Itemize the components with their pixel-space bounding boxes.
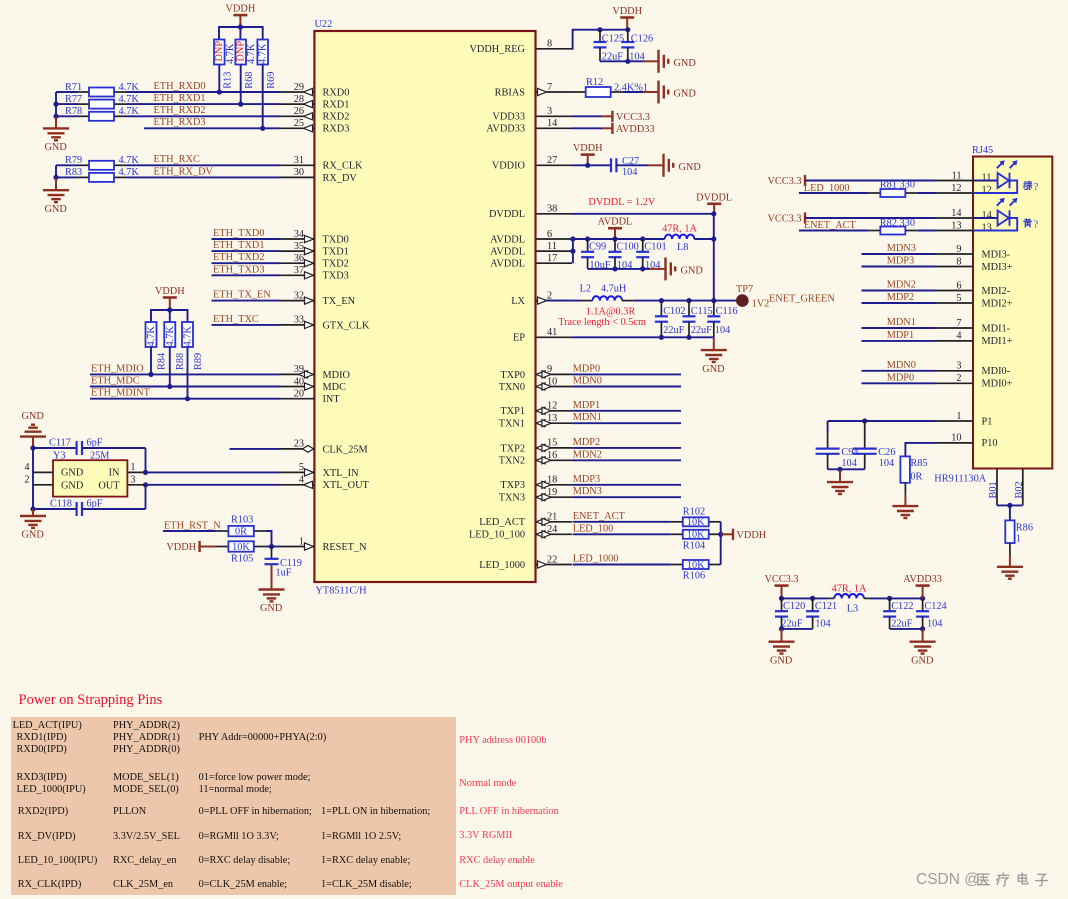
power port VDDH (VDDH_REG)	[620, 16, 634, 19]
table row RXD2(IPD)	[18, 806, 68, 817]
svg-text:29: 29	[294, 82, 304, 93]
svg-text:0R: 0R	[235, 527, 247, 538]
ground GND (RBIAS)	[643, 91, 658, 93]
svg-text:R12: R12	[586, 77, 603, 88]
svg-text:104: 104	[815, 618, 830, 629]
svg-text:104: 104	[715, 325, 730, 336]
wire R86 to GND	[1009, 543, 1011, 555]
svg-text:R83: R83	[65, 167, 82, 178]
capacitor C126 104	[627, 30, 629, 42]
svg-text:MDP1: MDP1	[887, 330, 914, 341]
wire reset node to chip	[266, 546, 280, 548]
resistor R69	[257, 40, 268, 65]
table note Normal mode	[459, 778, 516, 789]
svg-text:?: ?	[1034, 220, 1039, 231]
svg-text:AVDDL: AVDDL	[490, 234, 525, 245]
ground GND (VDDH_REG caps)	[643, 60, 658, 62]
svg-text:4: 4	[956, 331, 961, 342]
svg-text:4.7K: 4.7K	[183, 326, 194, 347]
junction C101 bottom	[640, 266, 645, 271]
table row RXD3(IPD)	[17, 772, 67, 783]
LED yellow (RJ45 pins 14-13)	[973, 217, 998, 219]
svg-text:ETH_TXC: ETH_TXC	[213, 314, 259, 325]
pin 26 RXD2 (U22 left)	[280, 115, 314, 117]
svg-text:RXD0: RXD0	[323, 87, 350, 98]
svg-text:10: 10	[951, 433, 961, 444]
connector RJ45 body	[973, 157, 1052, 469]
wire VCC33 rail	[782, 597, 829, 599]
capacitor C121 104	[812, 598, 814, 611]
ground GND (crystal bottom)	[32, 509, 34, 516]
watermark CJK glyphs	[978, 874, 990, 885]
svg-text:VCC3.3: VCC3.3	[767, 214, 801, 225]
capacitor C125 22uF	[599, 30, 601, 42]
resistor R105 10K	[216, 546, 228, 548]
pin 3 crystal	[127, 484, 145, 486]
wire C120-C121 bottom rail	[782, 628, 813, 630]
svg-text:VDDIO: VDDIO	[492, 161, 526, 172]
junction C102 top	[659, 298, 664, 303]
svg-text:AVDDL: AVDDL	[598, 217, 633, 228]
junction reset node	[269, 544, 274, 549]
pin 29 RXD0 (U22 left)	[280, 91, 314, 93]
svg-text:4.7K: 4.7K	[246, 43, 257, 64]
capacitor C94 104	[827, 421, 829, 432]
power port VDDH (reset pullup)	[198, 541, 200, 552]
resistor R68 (DNP)	[235, 40, 246, 65]
capacitor C122 22uF	[889, 598, 891, 611]
svg-text:26: 26	[294, 106, 304, 117]
svg-text:C101: C101	[644, 241, 666, 252]
junction pullup tie	[718, 532, 723, 537]
wire R81 to pin12	[917, 192, 935, 194]
svg-text:DVDDL = 1.2V: DVDDL = 1.2V	[588, 197, 655, 208]
wire MDN1 net (chip side)	[572, 422, 681, 424]
wire MDN0 net (RJ45 side)	[862, 370, 936, 372]
pin 37 TXD3 (U22 left)	[280, 274, 314, 276]
wire ETH_RXD2 net	[56, 115, 77, 117]
power port VDDH (MDIO pullups)	[163, 296, 177, 299]
junction C100 bottom	[612, 266, 617, 271]
svg-text:104: 104	[927, 618, 942, 629]
svg-text:ETH_TXD0: ETH_TXD0	[213, 228, 264, 239]
power port VCC3.3 (ENET_ACT row)	[804, 212, 806, 223]
power port AVDD33 (L3 filter)	[916, 584, 930, 587]
junction AVDDL pin6	[570, 236, 575, 241]
wire pin11 row	[805, 180, 935, 182]
svg-text:MDN0: MDN0	[573, 376, 602, 387]
table note 3.3V RGMII	[459, 830, 512, 841]
pin 8 (RJ45)	[935, 266, 973, 268]
svg-text:7: 7	[547, 82, 552, 93]
resistor R79	[77, 164, 89, 166]
svg-text:TP7: TP7	[736, 284, 753, 295]
inductor L8 47R	[665, 235, 695, 239]
svg-text:8: 8	[547, 39, 552, 50]
svg-text:R13: R13	[223, 72, 234, 89]
svg-text:MDN3: MDN3	[573, 486, 602, 497]
svg-text:32: 32	[294, 290, 304, 301]
svg-text:4.7K: 4.7K	[119, 82, 140, 93]
ground GND (crystal top, flipped)	[32, 437, 34, 448]
pin 20 INT (U22 left)	[280, 398, 314, 400]
capacitor C26 104	[864, 421, 866, 449]
capacitor C115 22uF	[688, 301, 690, 317]
svg-text:4: 4	[24, 462, 29, 473]
junction C102 bottom	[659, 335, 664, 340]
wire R85 to GND	[904, 483, 906, 495]
svg-text:MDP2: MDP2	[573, 437, 600, 448]
resistor R71	[77, 91, 89, 93]
svg-text:4.7K: 4.7K	[146, 326, 157, 347]
svg-text:R79: R79	[65, 155, 82, 166]
svg-text:B02: B02	[1014, 481, 1025, 498]
wire LED_100 to R104	[573, 533, 671, 535]
svg-text:MDN2: MDN2	[887, 280, 916, 291]
svg-text:4.7uH: 4.7uH	[601, 283, 627, 294]
svg-text:30: 30	[294, 167, 304, 178]
svg-text:R71: R71	[65, 82, 82, 93]
power port VCC3.3 (VDD33)	[602, 115, 612, 117]
junction C124 bottom	[920, 626, 925, 631]
pin 13 (RJ45)	[935, 230, 973, 232]
svg-text:VCC3.3: VCC3.3	[767, 176, 801, 187]
svg-text:R68: R68	[244, 72, 255, 89]
svg-text:6pF: 6pF	[87, 437, 103, 448]
power port VCC3.3 (L3 filter)	[775, 584, 789, 587]
svg-text:ENET_ACT: ENET_ACT	[804, 220, 857, 231]
svg-text:7: 7	[956, 318, 961, 329]
wire MDN0 net (chip side)	[572, 386, 681, 388]
svg-text:MDC: MDC	[323, 382, 347, 393]
junction C115 top	[686, 298, 691, 303]
pin 9 (RJ45)	[935, 253, 973, 255]
svg-text:11: 11	[547, 241, 557, 252]
junction C100 top	[612, 236, 617, 241]
wire ETH_RST_N net	[163, 530, 216, 532]
svg-text:11: 11	[982, 173, 992, 184]
table row RXD1(IPD)	[17, 732, 67, 743]
svg-text:4.7K: 4.7K	[119, 155, 140, 166]
wire 1V2 net	[634, 300, 736, 302]
power port AVDDL	[608, 227, 622, 230]
svg-text:1V2: 1V2	[752, 298, 770, 309]
svg-text:GND: GND	[679, 162, 702, 173]
junction C26 top	[862, 418, 867, 423]
wire crystal left vertical	[32, 448, 34, 509]
wire MDP0 net (chip side)	[572, 373, 681, 375]
resistor R104 10K	[671, 533, 683, 535]
svg-text:R84: R84	[156, 353, 167, 370]
wire VDDH pullup rail	[219, 27, 263, 40]
wire RXD pulldown bus vertical	[55, 92, 57, 119]
svg-text:MDIO: MDIO	[323, 370, 351, 381]
svg-text:5: 5	[956, 293, 961, 304]
test point TP7	[736, 294, 749, 307]
wire MDP3 net (RJ45 side)	[862, 266, 936, 268]
wire LED_1000 to R81	[799, 192, 868, 194]
ground GND (RXD pulldowns)	[55, 116, 57, 128]
svg-text:41: 41	[547, 327, 557, 338]
wire RXC pulldown vertical	[55, 165, 57, 178]
svg-text:TXP3: TXP3	[500, 480, 525, 491]
svg-text:20: 20	[294, 389, 304, 400]
wire R13 to RXD0	[218, 65, 220, 93]
watermark CSDN	[916, 871, 980, 889]
svg-text:14: 14	[951, 208, 961, 219]
svg-text:2: 2	[956, 373, 961, 384]
svg-text:13: 13	[951, 220, 961, 231]
svg-text:OUT: OUT	[98, 481, 120, 492]
pin 6 (RJ45)	[935, 290, 973, 292]
capacitor C124 104	[922, 598, 924, 611]
capacitor C99 10uF	[587, 239, 589, 252]
wire R69 to RXD3	[262, 65, 264, 129]
svg-text:17: 17	[547, 253, 557, 264]
svg-text:P1: P1	[982, 416, 993, 427]
svg-text:ETH_MDC: ETH_MDC	[91, 376, 140, 387]
svg-text:13: 13	[982, 223, 992, 234]
svg-text:RXD3: RXD3	[323, 124, 350, 135]
svg-text:B01: B01	[988, 481, 999, 498]
power port VCC3.3 (LED1000 row)	[804, 175, 806, 186]
wire P10 net	[905, 443, 935, 457]
pin 16 TXN2 (U22 right)	[536, 459, 573, 461]
label green LED text	[1024, 181, 1032, 189]
wire AVDD33	[572, 127, 602, 129]
svg-text:R77: R77	[65, 94, 82, 105]
svg-text:R88: R88	[175, 353, 186, 370]
wire LX to L2	[547, 300, 581, 302]
pin 14 AVDD33 (U22 right)	[536, 127, 573, 129]
svg-text:4.7K: 4.7K	[119, 167, 140, 178]
svg-text:ETH_MDINT: ETH_MDINT	[91, 388, 151, 399]
svg-text:MDN2: MDN2	[573, 449, 602, 460]
svg-text:GND: GND	[911, 655, 934, 666]
svg-text:MDN0: MDN0	[887, 360, 916, 371]
wire AVDDL rail	[573, 238, 665, 240]
wire XTL_IN to chip	[146, 471, 281, 473]
pin 23 CLK_25M (U22 left)	[280, 448, 314, 450]
svg-text:RX_CLK: RX_CLK	[323, 161, 364, 172]
svg-text:AVDDL: AVDDL	[490, 259, 525, 270]
svg-text:GTX_CLK: GTX_CLK	[323, 320, 370, 331]
svg-text:RJ45: RJ45	[972, 145, 993, 156]
pin 2 crystal	[33, 484, 53, 486]
pin 4 XTL_OUT (U22 left)	[280, 484, 314, 486]
wire AVDDL pins vertical tie	[572, 239, 574, 263]
svg-text:104: 104	[622, 167, 637, 178]
svg-text:TXN1: TXN1	[499, 419, 525, 430]
table note CLK_25M output enable	[459, 879, 563, 890]
svg-text:C120: C120	[783, 601, 805, 612]
wire MDN1 net (RJ45 side)	[862, 327, 936, 329]
pin 41 EP (U22 right)	[536, 336, 573, 338]
pin 24 LED_10_100 (U22 right)	[536, 533, 573, 535]
wire ETH_TX_EN net	[212, 300, 281, 302]
svg-text:U22: U22	[315, 19, 333, 30]
wire ETH_TXD0 net	[212, 238, 281, 240]
svg-text:AVDDL: AVDDL	[490, 247, 525, 258]
svg-text:3: 3	[547, 106, 552, 117]
svg-text:47R, 1A: 47R, 1A	[832, 584, 867, 595]
wire ETH_RXC net	[56, 164, 77, 166]
junction R84-MDIO	[148, 372, 153, 377]
svg-text:TXD2: TXD2	[323, 259, 349, 270]
junction C122 top	[887, 596, 892, 601]
ground GND (C27)	[648, 164, 663, 166]
svg-text:C26: C26	[878, 447, 895, 458]
svg-text:C100: C100	[617, 241, 639, 252]
capacitor C101 104	[642, 239, 644, 252]
wire ETH_TXD1 net	[212, 250, 281, 252]
svg-text:VDDH: VDDH	[226, 4, 256, 15]
svg-text:R86: R86	[1016, 523, 1033, 534]
svg-text:ENET_ACT: ENET_ACT	[573, 511, 626, 522]
pin 18 TXP3 (U22 right)	[536, 484, 573, 486]
svg-text:MDI1-: MDI1-	[982, 323, 1011, 334]
svg-text:VCC3.3: VCC3.3	[764, 574, 798, 585]
svg-text:C27: C27	[622, 156, 639, 167]
svg-text:TXN2: TXN2	[499, 456, 525, 467]
junction C121 top	[810, 596, 815, 601]
pin B01 (RJ45 shield)	[996, 469, 998, 506]
power port VDDH (RXD pullups)	[233, 14, 247, 17]
svg-text:RXD2: RXD2	[323, 112, 350, 123]
svg-text:ENET_GREEN: ENET_GREEN	[769, 294, 835, 305]
svg-text:MDP3: MDP3	[887, 256, 914, 267]
wire MDN2 net (chip side)	[572, 459, 681, 461]
svg-text:MDP0: MDP0	[573, 363, 600, 374]
svg-text:4.7K: 4.7K	[225, 43, 236, 64]
resistor R86 1	[1005, 520, 1014, 543]
svg-text:GND: GND	[674, 58, 697, 69]
capacitor C116 104	[713, 301, 715, 317]
junction L8-DVDDL rail	[711, 236, 716, 241]
resistor R81 330	[868, 192, 880, 194]
svg-text:1: 1	[956, 411, 961, 422]
svg-text:DNP: DNP	[214, 41, 225, 62]
svg-text:AVDD33: AVDD33	[903, 574, 942, 585]
svg-text:RX_DV: RX_DV	[323, 173, 358, 184]
table row RX_CLK(IPD)	[18, 879, 82, 890]
svg-text:TXN0: TXN0	[499, 382, 525, 393]
svg-text:TXP1: TXP1	[500, 406, 525, 417]
capacitor C119 1uF	[271, 547, 273, 559]
wire MDN3 net (RJ45 side)	[862, 253, 936, 255]
wire L8 to DVDDL rail	[694, 238, 714, 240]
wire R84 to MDIO	[150, 347, 152, 374]
svg-text:R105: R105	[231, 554, 253, 565]
pin 25 RXD3 (U22 left)	[280, 127, 314, 129]
table note PLL OFF in hibernation	[459, 806, 558, 817]
junction at R77 left	[53, 102, 58, 107]
svg-text:R102: R102	[683, 507, 705, 518]
wire ETH_MDC net	[90, 386, 280, 388]
svg-text:12: 12	[951, 183, 961, 194]
svg-text:27: 27	[547, 155, 557, 166]
svg-text:C124: C124	[924, 601, 946, 612]
capacitor C100 104	[614, 239, 616, 252]
pin 12 TXP1 (U22 right)	[536, 410, 573, 412]
capacitor C102 22uF	[660, 301, 662, 317]
svg-text:1.1A@0.3R: 1.1A@0.3R	[586, 307, 636, 318]
wire ENET_ACT to R82	[799, 230, 868, 232]
svg-text:VDDH: VDDH	[612, 6, 642, 17]
svg-text:RESET_N: RESET_N	[323, 542, 368, 553]
ground GND (R86)	[997, 566, 1023, 568]
svg-text:ETH_TXD1: ETH_TXD1	[213, 240, 264, 251]
junction at R78 left	[53, 114, 58, 119]
table row LED_1000(IPU)	[17, 784, 86, 795]
wire AVDDL cap bottom rail	[588, 268, 650, 270]
svg-text:TXD1: TXD1	[323, 247, 349, 258]
pin 7 RBIAS (U22 right)	[536, 91, 573, 93]
svg-text:GND: GND	[674, 89, 697, 100]
wire MDN2 net (RJ45 side)	[862, 290, 936, 292]
svg-text:40: 40	[294, 376, 304, 387]
wire ETH_MDIO net	[90, 373, 280, 375]
svg-text:33: 33	[294, 315, 304, 326]
resistor R13 (DNP)	[214, 40, 225, 65]
junction AVDDL pin11	[570, 249, 575, 254]
svg-text:MDI1+: MDI1+	[982, 336, 1013, 347]
svg-text:R85: R85	[910, 458, 927, 469]
svg-text:35: 35	[294, 241, 304, 252]
pin 13 TXN1 (U22 right)	[536, 422, 573, 424]
svg-text:R106: R106	[683, 571, 705, 582]
svg-text:1: 1	[130, 462, 135, 473]
svg-text:MDI2-: MDI2-	[982, 286, 1011, 297]
junction VDDH-VDDIO	[585, 163, 590, 168]
svg-text:4.7K: 4.7K	[258, 43, 269, 64]
pin B02 (RJ45 shield)	[1022, 469, 1024, 506]
pin 34 TXD0 (U22 left)	[280, 238, 314, 240]
svg-text:XTL_OUT: XTL_OUT	[323, 480, 370, 491]
resistor R106 10K	[671, 564, 683, 566]
wire LED_1000 to R106	[573, 564, 671, 566]
svg-text:R103: R103	[231, 514, 253, 525]
svg-text:ETH_RXD0: ETH_RXD0	[154, 81, 206, 92]
svg-text:1: 1	[1016, 534, 1021, 545]
svg-text:22uF: 22uF	[781, 618, 802, 629]
wire L3 to AVDD33 rail	[870, 597, 923, 599]
table note RXC delay enable	[459, 855, 535, 866]
wire EP rail	[572, 336, 714, 338]
junction XTL_OUT	[143, 482, 148, 487]
wire R82 to pin13	[917, 230, 935, 232]
svg-text:GND: GND	[770, 655, 793, 666]
svg-text:MDN3: MDN3	[887, 243, 916, 254]
svg-text:GND: GND	[681, 265, 704, 276]
inductor L2 4.7uH	[581, 300, 593, 302]
svg-text:C121: C121	[815, 601, 837, 612]
pin 27 VDDIO (U22 right)	[536, 164, 573, 166]
power port VDDH (VDDIO)	[581, 153, 595, 156]
junction cap bottom rail	[625, 59, 630, 64]
svg-text:MDN1: MDN1	[887, 317, 916, 328]
pin 36 TXD2 (U22 left)	[280, 262, 314, 264]
junction shield rail	[1007, 503, 1012, 508]
svg-text:MDP3: MDP3	[573, 474, 600, 485]
svg-text:DVDDL: DVDDL	[696, 192, 732, 203]
wire ETH_MDINT net	[90, 398, 280, 400]
power port DVDDL	[707, 203, 721, 206]
pin 38 DVDDL (U22 right)	[536, 213, 573, 215]
svg-text:ETH_RXD2: ETH_RXD2	[154, 105, 206, 116]
svg-text:1uF: 1uF	[276, 568, 292, 579]
svg-text:ETH_RX_DV: ETH_RX_DV	[154, 166, 214, 177]
